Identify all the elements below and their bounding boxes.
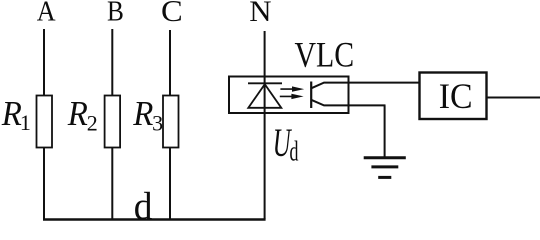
label VLC [295,36,355,75]
resistor R2 body [105,96,121,148]
svg-text:R: R [1,95,22,133]
svg-text:d: d [290,136,299,167]
phototransistor collector and wire to IC [311,83,419,89]
wire N lead through LED down to bus [264,31,266,219]
wire bottom bus d [43,218,266,220]
node label A [37,0,56,27]
ground bar 2 [371,165,398,168]
node label B [107,0,124,27]
label Ud voltage [273,121,292,165]
svg-text:R: R [67,95,88,133]
wire emitter down to ground [384,105,386,158]
svg-text:2: 2 [87,110,98,135]
phototransistor emitter and wire right [311,100,385,106]
IC box [420,73,487,120]
wire IC output [487,97,540,99]
node label d at bus [134,185,153,228]
optocoupler VLC box [229,77,349,114]
label R3 [132,95,153,133]
resistor R1 body [37,96,53,148]
svg-text:1: 1 [20,110,31,135]
light emission arrow 2 [280,94,304,99]
label R2 [67,95,88,133]
node label C [161,0,183,28]
svg-text:N: N [249,0,271,28]
resistor R3 body [163,96,179,148]
label Ud subscript d [290,136,299,167]
wire phase A lead [43,29,45,96]
wire R3 bottom to bus d [169,148,171,221]
light emission arrow 1 [280,86,304,91]
svg-text:R: R [132,95,153,133]
svg-text:VLC: VLC [295,36,355,75]
svg-text:A: A [37,0,56,27]
svg-text:IC: IC [439,76,473,116]
svg-text:C: C [161,0,183,28]
wire R1 bottom to bus d [43,148,45,221]
svg-text:d: d [134,185,153,228]
wire phase C lead [169,30,171,96]
wire phase B lead [111,29,113,96]
node label N [249,0,271,28]
ground bar 1 [364,156,406,159]
ground bar 3 [378,176,391,179]
label IC [439,76,473,116]
svg-text:3: 3 [152,110,163,135]
LED cathode bar [248,82,282,84]
wire R2 bottom to bus d [111,148,113,221]
label R1 [1,95,22,133]
svg-text:B: B [107,0,124,27]
LED triangle [248,84,281,108]
phototransistor base bar [310,82,312,109]
